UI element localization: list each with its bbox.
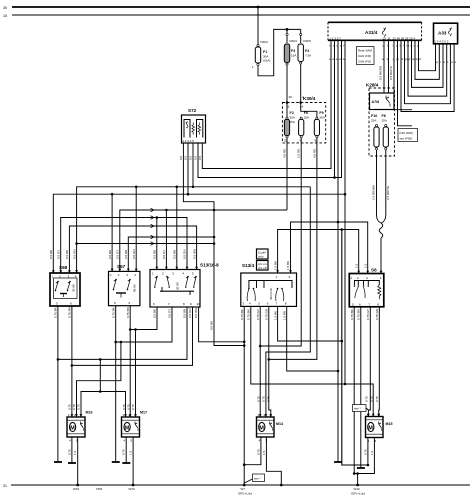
wire U-link 5 [405,40,451,103]
svg-text:0.5 GN: 0.5 GN [183,249,187,259]
motor M15 [366,413,393,443]
node b6 center [99,390,102,393]
node b6 feed on b3 [99,358,102,361]
switch S67 [109,264,140,306]
wire v310 from L1 down to M14 pin2 [266,187,310,417]
svg-text:K40 (F06): K40 (F06) [400,131,413,135]
fuse F8b [299,105,309,143]
note box right of K28/4 [398,129,418,142]
wire S6 pin7 to M15 pin1 [368,307,370,417]
motor M14 [257,413,284,443]
wire M17 pin4 down bar end [122,437,130,463]
svg-text:0.75: 0.75 [77,404,81,410]
svg-text:0.75: 0.75 [266,396,270,402]
svg-text:M16: M16 [86,411,93,415]
node on ground run [356,472,359,475]
svg-text:0.75 BN: 0.75 BN [68,307,72,318]
wire labels below motors [67,449,374,455]
wire labels under S13/4 [240,309,287,320]
svg-text:M: M [70,425,75,431]
node pin2 on stair [333,176,336,179]
fuse F2 [284,105,295,143]
node R2 tap [341,228,344,231]
svg-text:only: only [258,255,264,259]
svg-text:0.5 GN: 0.5 GN [132,249,136,259]
svg-text:0.75 GN: 0.75 GN [375,309,379,320]
switch unit S13/4 [241,263,297,306]
wire S72 pin2 drop [187,143,189,194]
svg-text:11: 11 [388,36,391,40]
svg-text:F1: F1 [263,50,267,54]
svg-text:1 2 3 5 7: 1 2 3 5 7 [329,36,341,40]
svg-text:1 2 3 4 5: 1 2 3 4 5 [182,139,194,143]
svg-text:M: M [125,425,130,431]
wire b7 to M16 pin2 [77,342,121,417]
wire F9 out down [316,138,318,222]
svg-text:15A: 15A [290,120,295,124]
svg-text:4.0 RD: 4.0 RD [283,148,287,158]
node L2 tail [344,193,347,196]
wire S13/16-8 pin3 drop from L1 [176,187,178,270]
wire S72 pin1 jog to arrow line A1 [183,143,244,346]
svg-text:S72: S72 [188,108,197,113]
node bp8 joins pin3 drop [337,370,340,373]
svg-text:A31/4: A31/4 [365,30,378,35]
wire long line L1: S68 pin4 to A31/4 pin5 [77,187,311,273]
ground label W7 [238,487,252,496]
note boxes above S13/4 [257,249,269,270]
wire stub A31/4 pin 40 [398,40,413,126]
wire F8 down [385,150,387,215]
svg-text:0.75 GN: 0.75 GN [265,309,269,320]
A31/4 pin ticks right group [393,36,422,61]
svg-text:M: M [368,425,373,431]
svg-text:0.75: 0.75 [122,404,126,410]
svg-text:0.75 BN: 0.75 BN [357,309,361,320]
cable squiggle [379,223,383,238]
wire F8b out down [300,138,302,230]
arrow line A4: S67 pin3 to v315 [128,235,215,271]
wire labels above S13/4 pins [273,261,290,270]
wire F8b continues to M14 pin1 join [260,230,301,347]
svg-text:0.75: 0.75 [127,404,131,410]
svg-text:1 3 4 5 6 2: 1 3 4 5 6 2 [434,40,449,44]
svg-text:0.5 BN: 0.5 BN [124,250,128,259]
svg-text:F4: F4 [305,49,309,53]
wire F2 out down [286,138,288,210]
svg-text:see (F60): see (F60) [400,137,413,141]
fuse F3 [284,29,297,102]
wire long line L2: S68 pin1 to A31/4 pin7 [53,43,345,273]
wire A31/4 pin3 deep drop [337,43,339,462]
svg-text:0.75: 0.75 [363,449,367,455]
wire M15 pin4 down to thick L join [367,437,369,465]
svg-text:0.75 BK: 0.75 BK [54,307,58,318]
svg-text:W7: W7 [241,487,246,491]
switch S72 [182,108,206,143]
svg-text:40mm M: 40mm M [269,288,273,300]
svg-text:1.5 BK: 1.5 BK [286,261,290,270]
svg-text:X30/4: X30/4 [289,39,297,43]
svg-text:1.5: 1.5 [363,263,367,268]
wire labels above M15 [365,396,379,402]
svg-text:F2: F2 [290,111,294,115]
relay A7/8 [370,93,395,110]
wire F9 continues to M14 pin3 join [269,222,317,359]
wire labels under left boxes [54,307,199,318]
wire F1 out to feeder [258,29,301,75]
svg-text:0.5 GY: 0.5 GY [116,250,120,259]
svg-text:25A: 25A [382,119,387,123]
bus 15 [3,14,470,18]
svg-text:0.5 GY: 0.5 GY [162,250,166,259]
wire S67 pin4 drop [135,187,137,272]
wire b2 to S13/16-8 pin7 [116,307,172,342]
wire S6 pin6 down bar end [357,307,365,468]
A31/4 pin ticks middle group [382,36,391,61]
wire S13/4 pin7 to R2 tap join [278,306,342,341]
line R1: S13/4 pin2 to S6 pin1 [291,222,368,274]
svg-text:see *: see * [254,476,262,480]
motor M17 [122,411,148,443]
wire labels above S67 [108,249,136,259]
node S72 pin1 on A1 [213,209,216,212]
node S13/4 pin6 joins [268,358,271,361]
svg-text:F3: F3 [291,49,295,53]
node M14 bus31 [280,484,283,487]
node S13/4 pin5 joins A4 line [259,345,262,348]
svg-text:0.5 GN: 0.5 GN [73,249,77,259]
svg-text:S13/16-8: S13/16-8 [200,263,219,268]
svg-text:0.75: 0.75 [256,449,260,455]
control unit A33 [434,23,458,44]
node b3 tap [57,358,60,361]
wire M15 pin5 to ground W12 [354,437,374,474]
node M15 pin4 join [367,464,370,467]
fuse box K30/4 [282,96,325,143]
svg-text:0.75 BK: 0.75 BK [240,309,244,320]
svg-text:F9: F9 [319,111,323,115]
svg-text:0.75 BK: 0.75 BK [350,309,354,320]
svg-text:W10: W10 [129,487,136,491]
svg-text:25A: 25A [304,116,309,120]
wire S13/4 pin5 to M14 pin1 [259,306,261,417]
fuse F9 [314,111,325,143]
svg-text:30-90: 30-90 [72,284,76,292]
wire S67 pin6 down to M17 pin2 [129,306,131,417]
wire stub A31/4 pin 21 [394,40,412,109]
node ground W7 [243,484,246,487]
node L2 at S72 pin2 [187,193,190,196]
svg-text:M14: M14 [276,422,283,426]
svg-text:1.5 BN: 1.5 BN [283,311,287,320]
node b1 tap [129,328,132,331]
wire S68 pin6 down to M16 pin1 [71,306,73,417]
wire U-link 4 [408,40,447,96]
svg-text:0.5 BN: 0.5 BN [183,309,187,318]
wire M17 pin5 to bus31 [132,437,134,485]
svg-text:1.5 BK: 1.5 BK [273,261,277,270]
svg-text:25A: 25A [371,119,376,123]
node on W7 wire [243,341,246,344]
wire labels above M14 [256,396,270,402]
wire labels on U-links [436,60,457,64]
wire L2 tail down [344,194,346,384]
wire labels above M16 [67,404,80,410]
svg-text:1.5: 1.5 [262,450,266,455]
svg-text:A7/8: A7/8 [372,100,380,104]
wire labels under S72 [179,155,202,160]
svg-text:15: 15 [3,14,7,18]
wire b6 link M16 pin3 to M17 pin1 [81,392,126,418]
wire S72 pin3 drop [192,143,194,187]
svg-text:0.75: 0.75 [122,449,126,455]
wire labels under S6 [350,309,379,320]
wire merged cable down to S6 [380,238,382,274]
module K28/4 (dashed enclosure) [366,83,395,157]
svg-text:0.5 GY: 0.5 GY [57,250,61,259]
node b8 tap on b1 [134,328,137,331]
svg-text:15: 15 [286,105,290,109]
svg-text:0.75 BN: 0.75 BN [126,307,130,318]
svg-text:0.5 BK: 0.5 BK [49,250,53,259]
svg-text:F8: F8 [382,114,386,118]
bar end of pin3 drop [334,461,342,463]
switch S68 [50,265,80,306]
wire ground drop W12 [357,474,359,486]
wire M16 pin4 down bar end [68,437,76,463]
wire S68 pin5 down with bar end [54,306,62,462]
svg-text:K30/4: K30/4 [303,96,316,101]
node b2 tap [114,341,117,344]
svg-text:1.5: 1.5 [354,263,358,268]
note box left of M15 [353,405,369,412]
svg-text:0.5 BK/GN: 0.5 BK/GN [379,66,383,80]
node A5 joins rail [213,242,216,245]
svg-text:15A: 15A [291,54,296,58]
wire inside box to F2 [286,103,288,118]
node b7 tap on b2 [120,341,123,344]
svg-text:W10: W10 [73,487,80,491]
arrow line A3: S68 pin3 to v310 [69,224,196,273]
svg-text:M15: M15 [386,422,393,426]
bus 31 [3,484,470,488]
svg-text:1.5 BK: 1.5 BK [273,311,277,320]
switch S13/16-8 [150,263,219,308]
node A4 joins rail [213,236,216,239]
svg-text:0.75: 0.75 [67,404,71,410]
svg-text:0.75: 0.75 [369,396,373,402]
svg-text:2.5 RD/WH: 2.5 RD/WH [372,185,376,200]
wire b3 to S13/16-8 pin8 [58,307,187,359]
wire labels above S13/16-8 [153,249,197,259]
node A31/4 pin3 on R1 [337,221,340,224]
svg-text:0.75 GY: 0.75 GY [366,309,370,320]
svg-text:0.75: 0.75 [375,396,379,402]
wire b4 to S13/16-8 pin9 [72,307,193,365]
wire S13/16-8 pin2 drop [165,210,167,270]
bus 30 [3,6,470,10]
wire A31/4 pin2 drop to stair [334,43,336,178]
svg-text:(15A): (15A) [263,59,270,63]
wire A31/4 pin11 to relay [388,43,390,93]
node b4 tap [71,364,74,367]
svg-text:0.5 BK: 0.5 BK [108,250,112,259]
wire S72 pin4 to A31/4 pin2 [198,43,342,178]
wire S13/4 pin4 route to M15 pin2 [251,306,373,417]
wire S13/4 pin3 down to ground W7 [243,306,245,485]
node L2 tail on 384 line [344,383,347,386]
wire M16 pin5 to bus31 [77,437,79,485]
svg-text:10: 10 [197,302,201,306]
svg-text:X30/5: X30/5 [303,39,311,43]
svg-text:0.75: 0.75 [256,396,260,402]
node L1 feed S13/16-8 pin3 [176,186,179,189]
cable merge brace [377,215,386,223]
wire M14 pin5 to bus31 [266,437,281,485]
svg-text:0.5 BK: 0.5 BK [153,250,157,259]
svg-text:CAN (FS): CAN (FS) [358,60,371,64]
arrow line A5: S68 pin4 tap to S13/16-8 pin5 [75,242,214,246]
node M14 ground join [243,463,246,466]
wire F10 down [376,150,378,215]
wire R2 tap down thick L to M15 return [342,230,368,466]
wire S6 pin5 down to M15 return [353,307,355,474]
fuse F4 [298,29,311,102]
svg-text:GRY+L/sd: GRY+L/sd [238,492,252,496]
svg-text:CAN (FR): CAN (FR) [358,54,371,58]
switch S6 [349,268,384,307]
svg-text:0.75: 0.75 [365,396,369,402]
svg-text:F10: F10 [371,114,377,118]
wire labels above S6 [354,263,367,268]
fuse F10 [371,114,379,150]
wire labels above S68 [49,249,77,259]
svg-text:0.75 BK: 0.75 BK [111,307,115,318]
svg-text:30: 30 [3,6,7,10]
wire inside box to F9 [301,103,317,118]
wire b8 to M17 pin3 [135,330,137,418]
svg-text:X30/3: X30/3 [260,40,268,44]
node ground W12 [356,484,359,487]
svg-text:W12: W12 [354,487,361,491]
svg-text:A/c off: A/c off [258,266,267,270]
svg-text:7.5A: 7.5A [305,54,311,58]
svg-text:0.75 BN: 0.75 BN [247,309,251,320]
note box near W7 [244,474,264,483]
control unit A31/4 [328,22,422,40]
svg-text:1.5: 1.5 [73,450,77,455]
node A2 feed S13/16-8 pin1 [156,216,159,219]
svg-text:0.5 BK/YE: 0.5 BK/YE [389,66,393,80]
svg-text:S6: S6 [371,268,377,273]
svg-text:30A: 30A [290,116,295,120]
wire b6 feed from b3 [99,359,101,391]
fuse F8 [382,114,389,150]
motor M16 [67,411,93,443]
svg-text:0.5 GY: 0.5 GY [168,309,172,318]
fuse F1 [252,40,270,69]
svg-text:0.5: 0.5 [183,155,187,160]
svg-text:Rear SAM: Rear SAM [358,49,372,53]
arrow line A2: S68 pin2 to v304 [61,216,187,273]
pin entry marks switch row [52,267,383,274]
wire U-link 3 [412,40,444,87]
node A1 feed S13/16-8 pin2 [165,209,168,212]
svg-text:16: 16 [300,105,304,109]
svg-text:0.5 GN: 0.5 GN [188,308,192,318]
arrow line A1: S67 pin2 to F2 [120,208,287,271]
wire U-link 6 [401,40,454,111]
node L1 at S72 pin3 [192,186,195,189]
wire S6 pin8 to M15 pin3 [378,307,381,417]
svg-text:S68: S68 [59,265,68,270]
svg-text:49: 49 [289,95,293,99]
note box under A31/4 [357,47,375,65]
svg-text:0.5: 0.5 [198,155,202,160]
svg-text:0.75: 0.75 [67,449,71,455]
node L1 at S67 pin4 [135,186,138,189]
svg-text:X5/6: X5/6 [96,487,103,491]
svg-text:10: 10 [383,36,387,40]
svg-text:K28/4: K28/4 [366,83,379,88]
svg-text:2.5 RD/YE: 2.5 RD/YE [386,186,390,200]
wire labels above M17 [122,404,135,410]
svg-text:0.5 BK: 0.5 BK [153,309,157,318]
wire S13/4 pin8 to pin3-drop join [287,306,338,371]
node rail joins W7 wire [243,344,246,347]
svg-text:30A: 30A [319,116,324,120]
node: F3 wire into fuse box [286,101,289,104]
ground label W12 [351,487,365,496]
wire M14 pin4 to ground W7 [244,437,261,465]
svg-text:see *: see * [354,407,362,411]
svg-text:0.75: 0.75 [131,404,135,410]
node L2 at S67 pin1 [111,193,114,196]
A31/4 pin ticks left group [329,36,346,61]
svg-text:r: r [440,60,441,64]
svg-text:2.5 RD: 2.5 RD [297,148,301,158]
svg-text:0.75 GY: 0.75 GY [256,309,260,320]
svg-text:85-86: 85-86 [133,284,137,292]
svg-text:30-90: 30-90 [176,282,180,290]
wire U-link 2 [415,40,439,79]
node: feeder junction to F3 [286,28,289,31]
line R2: S13/4 pin1 to S6 pin2 [278,230,359,274]
wire S13/16-8 pin10 to ground rail joint [199,307,245,342]
node: tap of F1 on bus 30 [257,6,260,9]
svg-text:A33: A33 [438,31,447,36]
wire bus30 to F1 [257,7,259,45]
svg-text:31: 31 [3,484,7,488]
svg-text:M17: M17 [140,411,147,415]
svg-text:0.5 WH: 0.5 WH [192,249,196,259]
svg-text:0.5 WH: 0.5 WH [194,308,198,318]
node: F4 wire into fuse box [299,101,302,104]
wire S13/4 pin6 to M14 pin3 [269,306,271,417]
svg-text:1.5: 1.5 [129,450,133,455]
wire S13/16-8 pin1 drop [156,218,158,270]
ground label W10 [73,487,103,491]
svg-text:0.75: 0.75 [72,404,76,410]
node S6 pin5 joins ground run [353,472,356,475]
svg-text:M: M [259,425,264,431]
svg-text:S13/4: S13/4 [242,263,254,268]
svg-text:F8: F8 [304,111,308,115]
svg-text:0.5: 0.5 [189,155,193,160]
wire A31/4 pin10 to relay [383,43,385,93]
wire S67 pin5 down with bar end [112,306,120,462]
